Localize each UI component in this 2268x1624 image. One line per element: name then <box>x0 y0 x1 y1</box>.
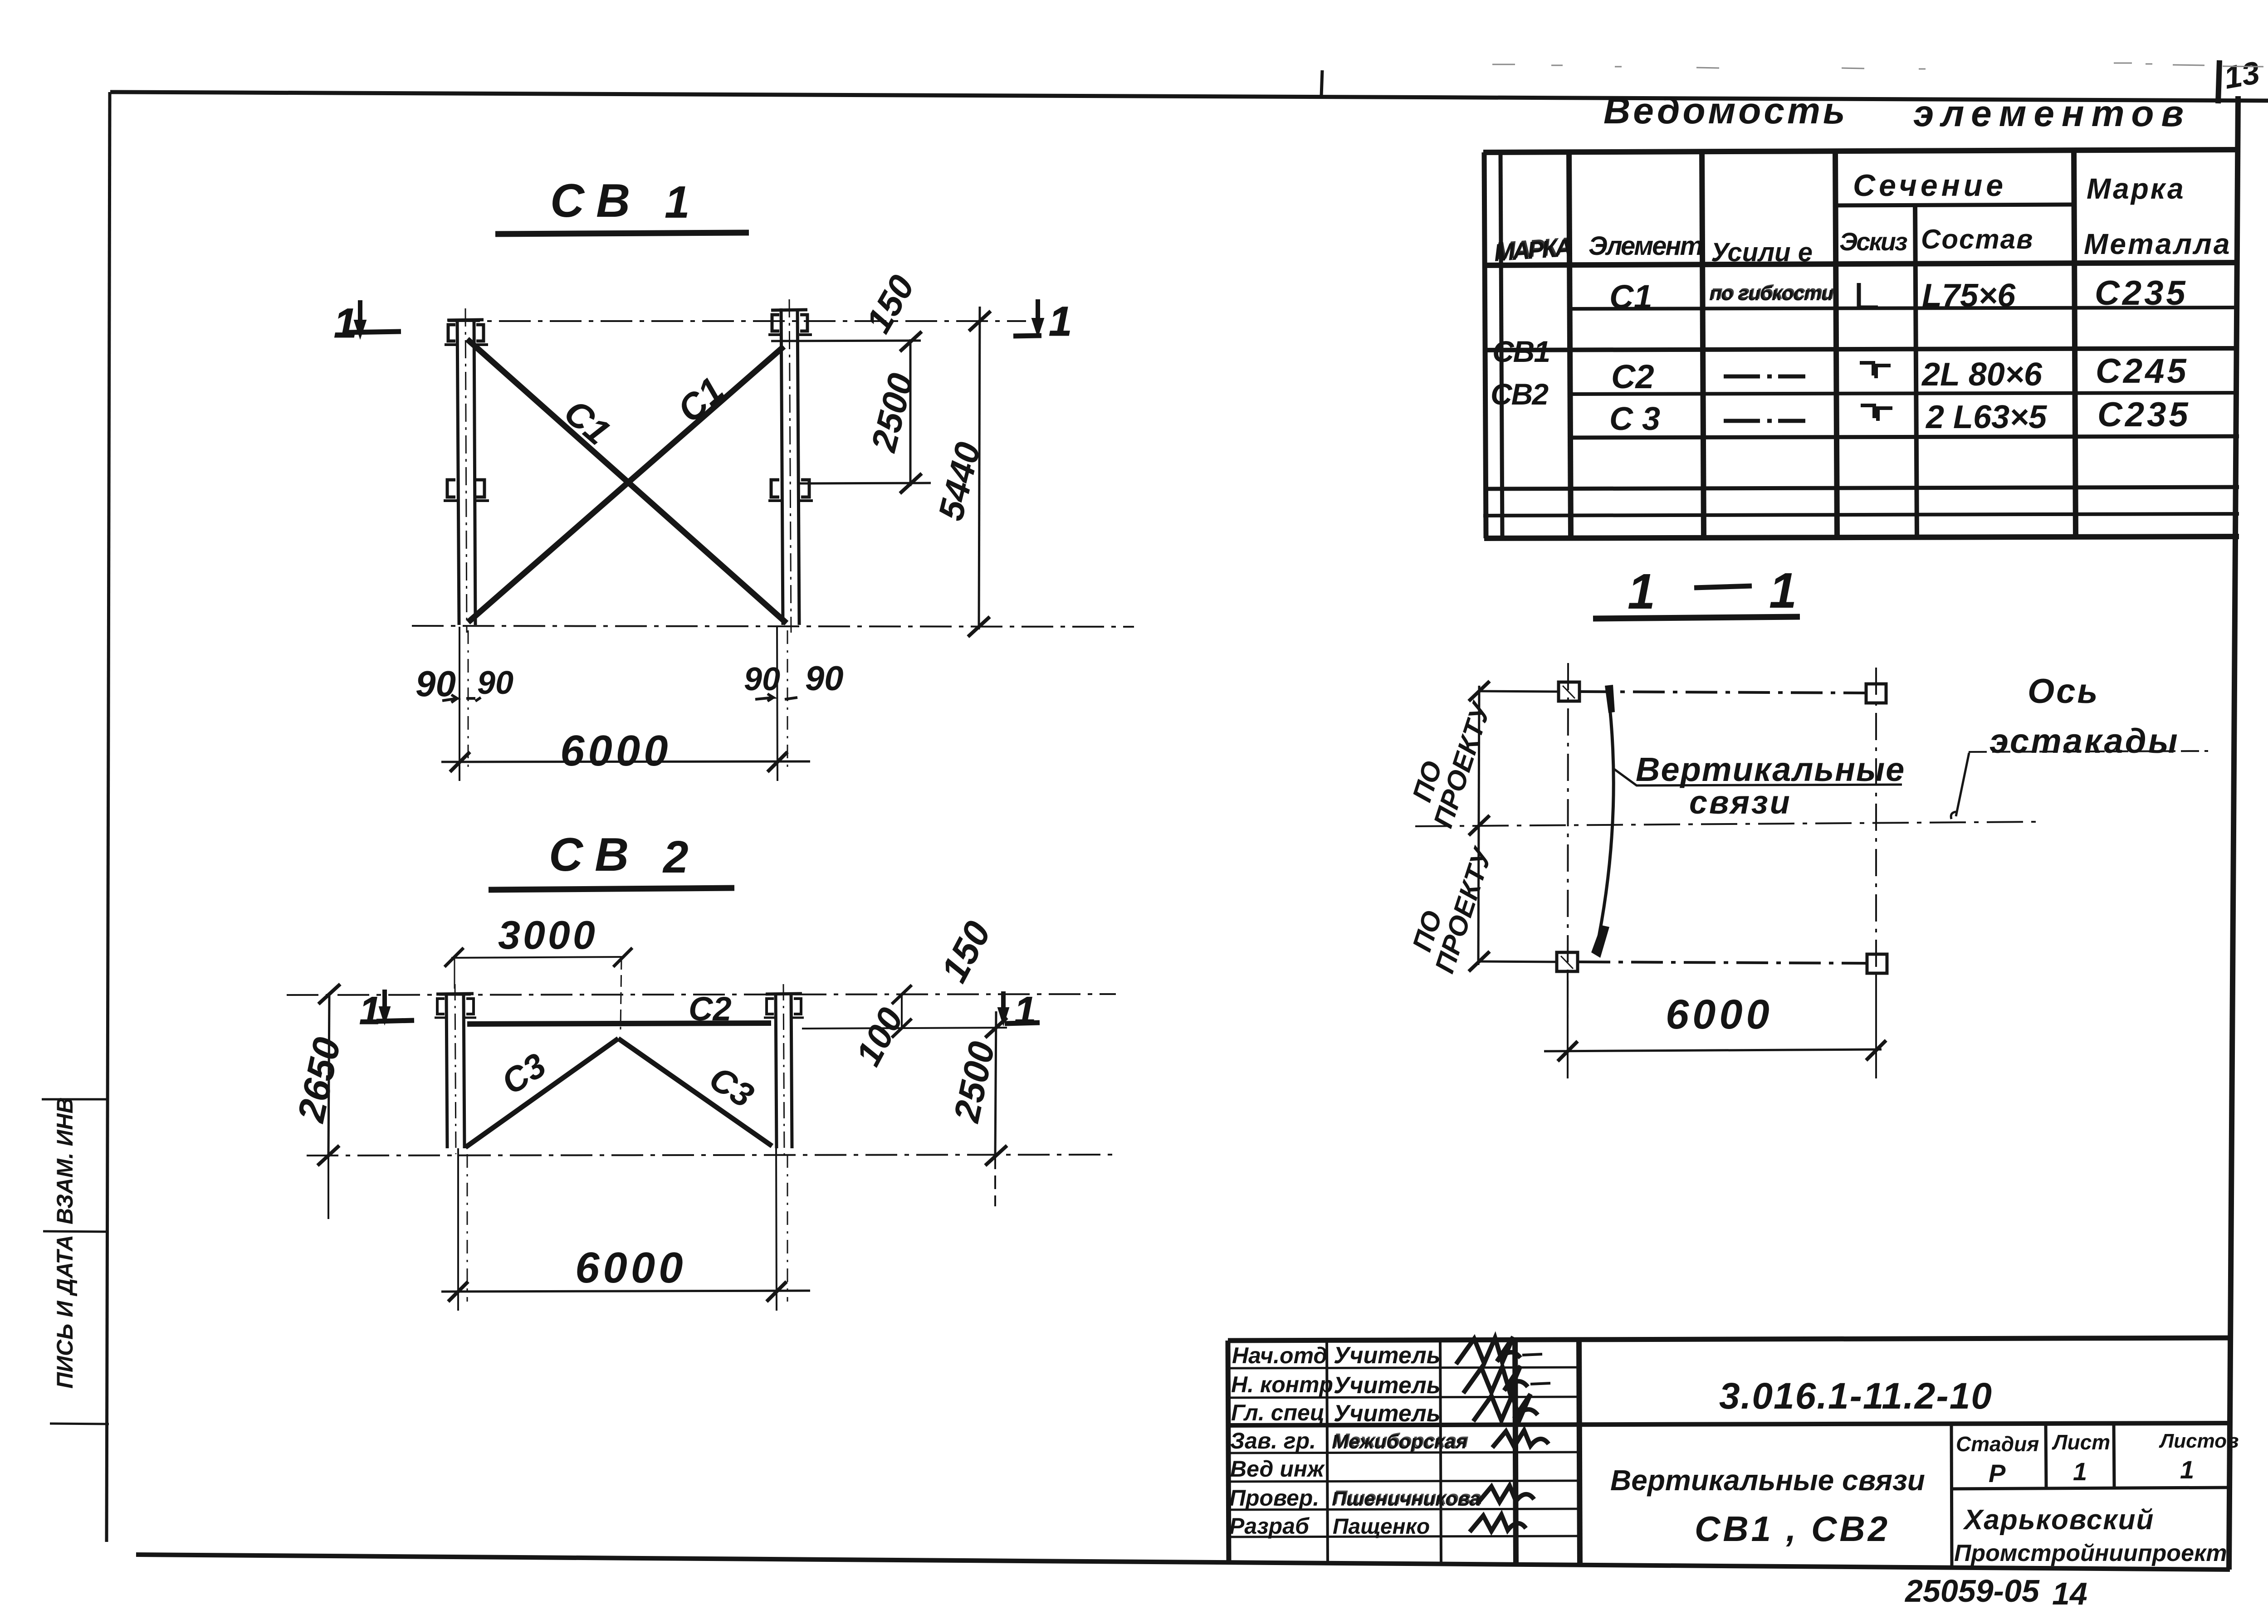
svg-text:1: 1 <box>1014 989 1036 1033</box>
svg-text:Промстройниипроект: Промстройниипроект <box>1954 1540 2227 1566</box>
svg-text:90: 90 <box>415 663 456 704</box>
svg-text:Листов: Листов <box>2159 1430 2239 1452</box>
svg-text:Пшеничникова: Пшеничникова <box>1333 1487 1481 1509</box>
svg-text:элементов: элементов <box>1913 93 2191 134</box>
svg-text:Ведомость: Ведомость <box>1603 90 1848 132</box>
svg-text:ВЗАМ. ИНВ: ВЗАМ. ИНВ <box>52 1097 78 1224</box>
svg-text:С2: С2 <box>1611 358 1654 395</box>
svg-text:1: 1 <box>1628 564 1655 619</box>
svg-text:13: 13 <box>2221 54 2262 95</box>
svg-text:эстакады: эстакады <box>1989 722 2180 761</box>
svg-text:Учитель: Учитель <box>1334 1400 1441 1427</box>
svg-text:Межиборская: Межиборская <box>1333 1429 1469 1452</box>
svg-text:1: 1 <box>2073 1457 2087 1486</box>
svg-text:Стадия: Стадия <box>1956 1432 2039 1456</box>
svg-text:Гл. спец: Гл. спец <box>1231 1400 1325 1425</box>
svg-text:по гибкости: по гибкости <box>1711 281 1834 303</box>
svg-text:С2: С2 <box>689 990 732 1028</box>
svg-text:Состав: Состав <box>1921 224 2033 254</box>
svg-text:Разраб: Разраб <box>1229 1513 1310 1539</box>
svg-text:Вед инж: Вед инж <box>1230 1456 1325 1482</box>
svg-text:Лист: Лист <box>2052 1430 2110 1454</box>
svg-text:2 L63×5: 2 L63×5 <box>1925 399 2047 435</box>
svg-text:СВ1: СВ1 <box>1492 335 1549 368</box>
svg-text:Пащенко: Пащенко <box>1333 1515 1430 1539</box>
svg-text:14: 14 <box>2052 1576 2087 1611</box>
svg-text:Провер.: Провер. <box>1229 1485 1319 1511</box>
svg-text:3.016.1-11.2-10: 3.016.1-11.2-10 <box>1719 1375 1993 1417</box>
svg-text:25059-05: 25059-05 <box>1904 1573 2040 1609</box>
svg-text:С235: С235 <box>2097 395 2191 434</box>
svg-text:Эскиз: Эскиз <box>1839 227 1907 256</box>
svg-text:СВ1 , СВ2: СВ1 , СВ2 <box>1695 1509 1890 1549</box>
svg-text:Харьковский: Харьковский <box>1963 1504 2154 1536</box>
svg-text:Учитель: Учитель <box>1334 1342 1441 1369</box>
svg-text:Нач.отд: Нач.отд <box>1232 1343 1327 1368</box>
svg-text:ПИСЬ И ДАТА: ПИСЬ И ДАТА <box>52 1235 78 1389</box>
svg-text:2L 80×6: 2L 80×6 <box>1921 356 2043 393</box>
svg-text:С 3: С 3 <box>1609 401 1660 437</box>
svg-text:1: 1 <box>2180 1455 2194 1484</box>
svg-text:90: 90 <box>477 665 513 701</box>
svg-text:СВ2: СВ2 <box>1491 377 1549 411</box>
svg-text:Ось: Ось <box>2028 672 2100 711</box>
svg-text:Элемент: Элемент <box>1589 231 1702 261</box>
svg-text:1: 1 <box>1049 298 1072 345</box>
svg-text:СВ: СВ <box>549 829 640 881</box>
svg-text:Н. контр: Н. контр <box>1231 1372 1333 1397</box>
svg-text:С245: С245 <box>2096 352 2189 390</box>
svg-text:Р: Р <box>1989 1459 2006 1487</box>
svg-text:МАРКА: МАРКА <box>1495 232 1573 265</box>
svg-text:1: 1 <box>665 177 690 228</box>
svg-text:Вертикальные связи: Вертикальные связи <box>1610 1464 1925 1497</box>
svg-text:90: 90 <box>805 659 844 698</box>
svg-text:1: 1 <box>334 300 357 346</box>
svg-text:СВ: СВ <box>550 175 642 227</box>
svg-text:связи: связи <box>1689 785 1792 821</box>
svg-text:6000: 6000 <box>575 1244 687 1292</box>
svg-text:Зав. гр.: Зав. гр. <box>1230 1428 1316 1453</box>
svg-text:6000: 6000 <box>560 727 672 775</box>
svg-text:Усили е: Усили е <box>1711 238 1813 267</box>
svg-text:1: 1 <box>1769 563 1797 619</box>
svg-text:Сечение: Сечение <box>1853 168 2007 203</box>
svg-text:С1: С1 <box>1609 278 1652 316</box>
svg-text:Металла: Металла <box>2084 228 2231 260</box>
svg-text:2: 2 <box>662 832 689 883</box>
svg-text:L75×6: L75×6 <box>1922 278 2016 314</box>
svg-text:6000: 6000 <box>1666 991 1773 1038</box>
svg-text:Марка: Марка <box>2087 172 2185 205</box>
svg-text:3000: 3000 <box>498 912 598 957</box>
svg-text:90: 90 <box>744 661 780 697</box>
svg-text:Вертикальные: Вертикальные <box>1636 751 1905 788</box>
svg-text:Учитель: Учитель <box>1334 1372 1441 1399</box>
svg-text:С235: С235 <box>2095 274 2188 312</box>
